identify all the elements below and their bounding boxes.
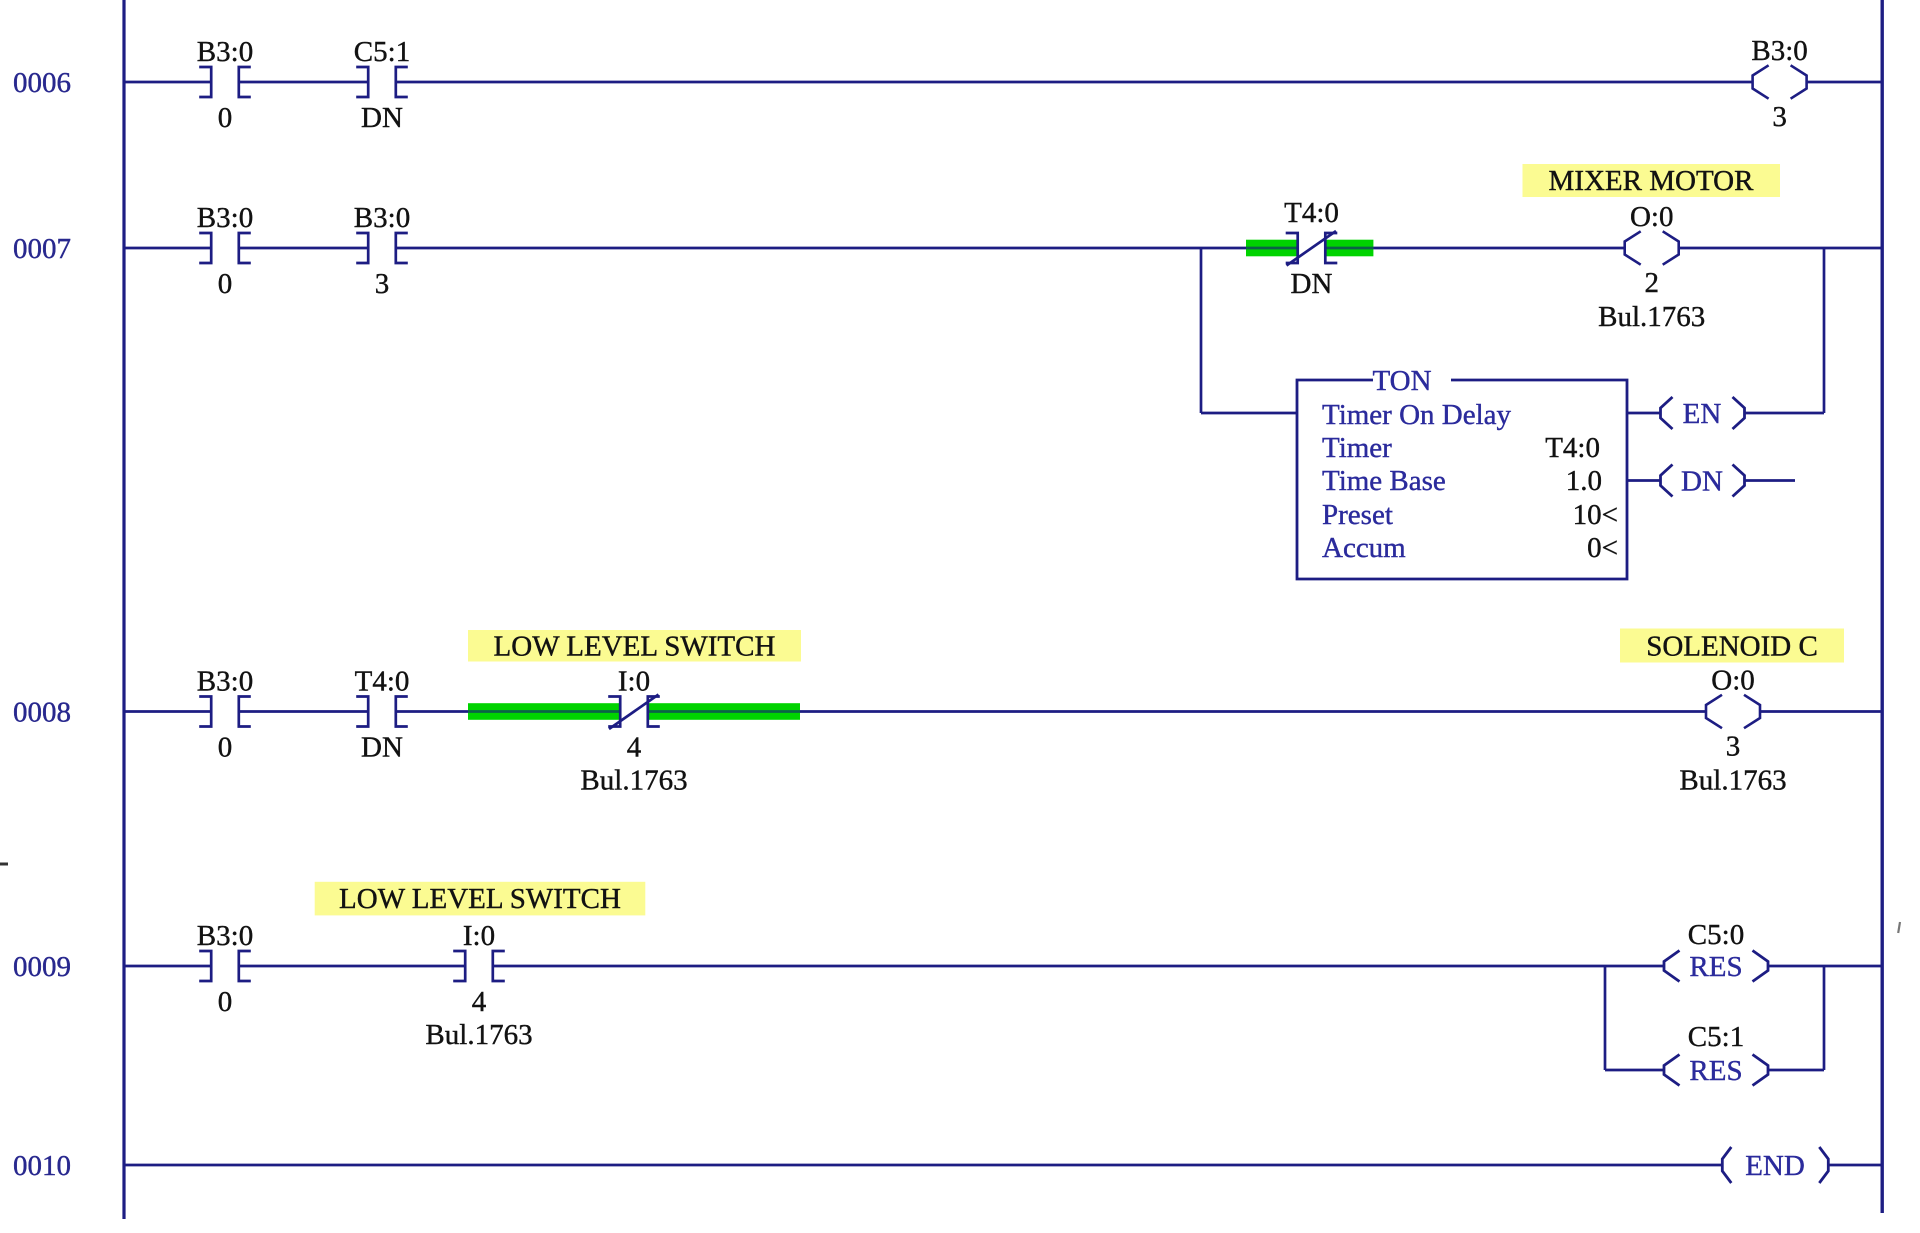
svg-text:B3:0: B3:0 [1751,35,1807,67]
wire rung 0009 seg1 [125,965,211,968]
contact B3:0/0 (rung 0008) [199,697,251,727]
wire rung 0009 seg2 [239,965,465,968]
wire rung 0009 seg3 [493,965,1664,968]
wire rung 0007 seg4 [1373,247,1624,250]
power-flow highlight left of T4:0 [1246,240,1298,257]
svg-text:Bul.1763: Bul.1763 [1598,301,1705,333]
svg-text:Time Base: Time Base [1322,465,1446,497]
SOLENOID C highlight label [1620,629,1844,663]
wire in highlight right (rung 0007) [1325,247,1374,250]
coil O:0/2 MIXER MOTOR (rung 0007 output) [1625,231,1679,264]
power-flow highlight left of I:0 [468,703,621,720]
svg-text:C5:1: C5:1 [354,36,410,68]
wire TON to EN coil [1627,412,1661,415]
MIXER MOTOR highlight label [1523,164,1781,197]
wire rung 0009 seg4 [1768,965,1882,968]
svg-text:END: END [1745,1150,1805,1182]
NC contact T4:0/DN (rung 0007) [1286,231,1338,266]
branch wire horizontal left (rung 0009) [1605,1069,1664,1072]
svg-text:C5:0: C5:0 [1688,919,1744,951]
svg-text:I:0: I:0 [463,920,495,952]
svg-text:I:0: I:0 [618,666,650,698]
wire rung 0008 seg1 [125,710,211,713]
svg-text:C5:1: C5:1 [1688,1021,1744,1053]
svg-text:Timer: Timer [1322,432,1392,464]
svg-text:DN: DN [361,732,403,764]
svg-text:Timer On Delay: Timer On Delay [1322,399,1512,431]
svg-text:0: 0 [218,102,233,134]
LOW LEVEL SWITCH highlight label (rung 0008) [468,630,801,662]
svg-text:O:0: O:0 [1630,201,1674,233]
wire rung 0008 seg5 [1760,710,1882,713]
right power rail [1880,0,1883,1213]
svg-text:O:0: O:0 [1711,665,1755,697]
wire rung 0007 seg1 [125,247,211,250]
wire rung 0006 seg2 [239,81,368,84]
wire rung 0006 seg4 [1807,81,1882,84]
left power rail [122,0,125,1219]
wire rung 0010 seg2 [1828,1164,1882,1167]
branch wire down-left (rung 0007 to TON) [1200,247,1203,413]
svg-text:Preset: Preset [1322,499,1393,531]
wire DN coil dangling [1745,479,1796,482]
wire EN coil to right branch [1745,412,1825,415]
svg-text:Bul.1763: Bul.1763 [425,1019,532,1051]
svg-text:RES: RES [1689,1055,1742,1087]
branch wire horizontal to TON [1201,412,1297,415]
svg-text:Accum: Accum [1322,532,1406,564]
contact B3:0/0 (rung 0006) [199,67,251,97]
svg-text:B3:0: B3:0 [354,202,410,234]
coil B3:0/3 (rung 0006 output) [1753,65,1807,98]
svg-text:DN: DN [1681,466,1723,498]
svg-text:LOW LEVEL SWITCH: LOW LEVEL SWITCH [494,631,776,663]
svg-text:DN: DN [361,102,403,134]
svg-text:0010: 0010 [13,1150,71,1182]
wire rung 0007 seg3 [396,247,1246,250]
svg-text:Bul.1763: Bul.1763 [1679,765,1786,797]
RES coil C5:0 (rung 0009) [1664,951,1768,982]
LOW LEVEL SWITCH highlight label (rung 0009) [315,882,646,916]
svg-text:T4:0: T4:0 [355,666,410,698]
stray mark right margin [1898,922,1900,933]
wire TON to DN coil [1627,479,1661,482]
stray mark left margin [0,863,8,866]
branch wire horizontal right (rung 0009) [1768,1069,1824,1072]
coil O:0/3 SOLENOID C (rung 0008 output) [1706,695,1760,728]
svg-text:RES: RES [1689,951,1742,983]
svg-text:3: 3 [1772,101,1787,133]
svg-text:B3:0: B3:0 [197,666,253,698]
svg-text:T4:0: T4:0 [1284,197,1339,229]
EN output coil [1661,397,1745,429]
power-flow highlight right of I:0 [647,703,800,720]
wire in highlight left (rung 0007) [1246,247,1298,250]
contact C5:1/DN (rung 0006) [356,67,408,97]
svg-text:B3:0: B3:0 [197,920,253,952]
wire rung 0006 seg3 [396,81,1753,84]
svg-text:3: 3 [1726,731,1741,763]
svg-text:4: 4 [627,732,642,764]
svg-text:0007: 0007 [13,233,71,265]
svg-text:10<: 10< [1573,499,1618,531]
svg-text:0<: 0< [1587,532,1618,564]
svg-text:B3:0: B3:0 [197,36,253,68]
svg-text:0008: 0008 [13,697,71,729]
NC contact I:0/4 LOW LEVEL SWITCH (rung 0008) [608,695,660,730]
wire rung 0010 seg1 [125,1164,1723,1167]
svg-text:SOLENOID C: SOLENOID C [1646,631,1818,663]
svg-text:DN: DN [1291,268,1333,300]
svg-text:4: 4 [472,986,487,1018]
svg-text:0009: 0009 [13,951,71,983]
wire rung 0008 seg2 [239,710,368,713]
contact B3:0/0 (rung 0009) [199,951,251,981]
branch wire down-left (rung 0009) [1604,965,1607,1070]
DN output coil [1661,465,1745,497]
svg-text:0: 0 [218,986,233,1018]
wire rung 0007 seg2 [239,247,368,250]
svg-text:MIXER MOTOR: MIXER MOTOR [1549,165,1755,197]
wire rung 0007 seg5 [1679,247,1882,250]
svg-text:2: 2 [1644,267,1659,299]
contact B3:0/0 (rung 0007) [199,233,251,263]
contact T4:0/DN (rung 0008) [356,697,408,727]
contact B3:0/3 (rung 0007) [356,233,408,263]
wire in highlight right (rung 0008) [647,710,800,713]
timer block TON box [1297,380,1627,579]
power-flow highlight right of T4:0 [1325,240,1374,257]
svg-text:TON: TON [1372,365,1431,397]
svg-text:Bul.1763: Bul.1763 [580,765,687,797]
svg-text:0: 0 [218,732,233,764]
svg-text:1.0: 1.0 [1566,465,1602,497]
svg-text:B3:0: B3:0 [197,202,253,234]
wire in highlight left (rung 0008) [468,710,621,713]
contact I:0/4 LOW LEVEL SWITCH (rung 0009) [453,951,505,981]
wire rung 0006 seg1 [125,81,211,84]
branch wire up-right (rung 0009) [1823,965,1826,1070]
RES coil C5:1 (rung 0009 branch) [1664,1055,1768,1086]
wire rung 0008 seg4 [800,710,1706,713]
svg-text:EN: EN [1683,398,1722,430]
svg-text:3: 3 [375,268,390,300]
svg-text:T4:0: T4:0 [1545,432,1600,464]
END coil [1722,1147,1828,1183]
branch wire up-right (EN to rung 0007) [1823,248,1826,413]
svg-text:LOW LEVEL SWITCH: LOW LEVEL SWITCH [339,883,621,915]
svg-text:0: 0 [218,268,233,300]
svg-text:0006: 0006 [13,67,71,99]
wire rung 0008 seg3 [396,710,468,713]
